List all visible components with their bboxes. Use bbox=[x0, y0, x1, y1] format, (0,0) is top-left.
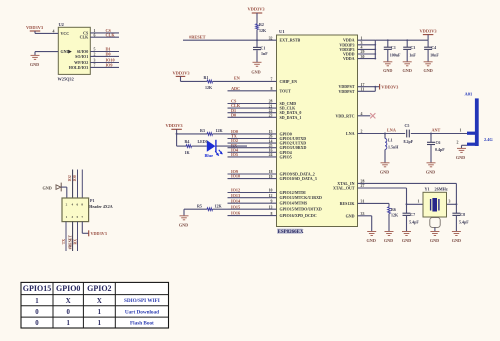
svg-text:12K: 12K bbox=[215, 203, 223, 208]
svg-text:GND: GND bbox=[380, 170, 389, 175]
svg-text:IO5: IO5 bbox=[231, 152, 238, 157]
svg-text:IO0: IO0 bbox=[73, 175, 77, 181]
svg-text:VDD3V3: VDD3V3 bbox=[91, 231, 107, 236]
svg-text:2.4G: 2.4G bbox=[484, 137, 493, 142]
svg-text:1: 1 bbox=[418, 200, 420, 204]
svg-text:X: X bbox=[66, 298, 71, 305]
svg-text:TOUT: TOUT bbox=[280, 88, 292, 93]
svg-text:GPIO13/MTCK/U1RXD: GPIO13/MTCK/U1RXD bbox=[280, 195, 323, 200]
svg-text:VDD3V3: VDD3V3 bbox=[173, 71, 191, 76]
svg-text:EN: EN bbox=[234, 76, 240, 81]
svg-text:TX: TX bbox=[62, 239, 66, 245]
svg-text:1.5nH: 1.5nH bbox=[388, 145, 399, 150]
svg-text:2: 2 bbox=[457, 141, 459, 145]
svg-text:C1: C1 bbox=[391, 45, 396, 50]
svg-text:U1: U1 bbox=[279, 29, 285, 34]
svg-text:IO2: IO2 bbox=[68, 175, 72, 181]
svg-text:GPIO5: GPIO5 bbox=[280, 154, 292, 159]
svg-text:R1: R1 bbox=[204, 75, 209, 80]
svg-text:RES12K: RES12K bbox=[340, 201, 356, 206]
svg-text:VDDPST: VDDPST bbox=[338, 89, 354, 94]
svg-text:R5: R5 bbox=[197, 203, 202, 208]
svg-text:1: 1 bbox=[98, 320, 102, 327]
svg-text:GND: GND bbox=[402, 238, 411, 243]
svg-text:GND: GND bbox=[346, 213, 355, 218]
svg-text:XTAL_OUT: XTAL_OUT bbox=[333, 186, 355, 191]
svg-text:#RESET: #RESET bbox=[68, 235, 72, 250]
svg-text:X: X bbox=[97, 298, 102, 305]
svg-text:12K: 12K bbox=[259, 28, 267, 33]
svg-text:GPIO16/XPD_DCDC: GPIO16/XPD_DCDC bbox=[280, 213, 317, 218]
svg-text:Y1: Y1 bbox=[425, 187, 430, 192]
svg-text:VDD3V3: VDD3V3 bbox=[26, 25, 44, 30]
svg-text:0.4pF: 0.4pF bbox=[435, 147, 445, 152]
svg-text:1K: 1K bbox=[185, 150, 191, 155]
svg-text:C8: C8 bbox=[460, 212, 465, 217]
svg-text:R2: R2 bbox=[259, 22, 264, 27]
svg-text:LNA: LNA bbox=[387, 128, 396, 133]
svg-text:GND: GND bbox=[452, 238, 461, 243]
svg-text:GPIO15/MTDO/U0TXD: GPIO15/MTDO/U0TXD bbox=[280, 207, 322, 212]
svg-text:7: 7 bbox=[94, 64, 96, 68]
svg-text:GND: GND bbox=[384, 238, 393, 243]
svg-text:0: 0 bbox=[35, 309, 39, 316]
svg-text:R6: R6 bbox=[391, 207, 396, 212]
svg-text:GND: GND bbox=[251, 70, 260, 75]
svg-text:0: 0 bbox=[66, 309, 70, 316]
svg-text:VDD_RTC: VDD_RTC bbox=[336, 113, 355, 118]
svg-text:CHIP_EN: CHIP_EN bbox=[280, 79, 298, 84]
svg-text:12K: 12K bbox=[205, 85, 213, 90]
svg-text:5.4pF: 5.4pF bbox=[409, 219, 419, 224]
svg-text:1: 1 bbox=[460, 129, 462, 133]
svg-text:SO/IO1: SO/IO1 bbox=[75, 54, 88, 59]
svg-text:P1: P1 bbox=[90, 198, 94, 203]
svg-text:CLK: CLK bbox=[80, 35, 90, 40]
svg-text:VCC: VCC bbox=[61, 31, 70, 36]
svg-text:GND: GND bbox=[179, 223, 188, 228]
svg-text:Blue: Blue bbox=[205, 153, 214, 158]
svg-text:GND: GND bbox=[61, 49, 70, 54]
svg-text:GND: GND bbox=[423, 68, 432, 73]
svg-text:R3: R3 bbox=[200, 128, 205, 133]
svg-text:IO15: IO15 bbox=[231, 204, 240, 209]
svg-text:12K: 12K bbox=[216, 128, 224, 133]
svg-text:GND: GND bbox=[426, 170, 435, 175]
svg-text:Flash Boot: Flash Boot bbox=[130, 321, 154, 327]
svg-text:VDD3V3: VDD3V3 bbox=[420, 28, 438, 33]
svg-text:C3: C3 bbox=[410, 45, 415, 50]
svg-text:L1: L1 bbox=[388, 138, 393, 143]
svg-text:D0: D0 bbox=[231, 112, 236, 117]
svg-text:GND: GND bbox=[30, 62, 39, 67]
svg-text:4: 4 bbox=[53, 29, 55, 33]
svg-text:R4: R4 bbox=[185, 139, 190, 144]
svg-text:ANT: ANT bbox=[432, 128, 441, 133]
svg-text:CLK: CLK bbox=[106, 32, 116, 37]
svg-text:GND: GND bbox=[367, 238, 376, 243]
svg-text:8.2pF: 8.2pF bbox=[404, 139, 414, 144]
svg-text:VDD3V3: VDD3V3 bbox=[248, 7, 266, 12]
svg-text:Uart Download: Uart Download bbox=[125, 310, 159, 316]
svg-text:2: 2 bbox=[94, 53, 96, 57]
svg-text:GPIO2: GPIO2 bbox=[87, 284, 111, 293]
svg-text:IO10: IO10 bbox=[231, 174, 240, 179]
svg-text:VDD3V3: VDD3V3 bbox=[381, 85, 399, 90]
svg-text:6: 6 bbox=[94, 33, 96, 37]
svg-text:C1: C1 bbox=[261, 46, 266, 51]
svg-text:GND: GND bbox=[456, 155, 465, 160]
svg-text:HOLD/IO3: HOLD/IO3 bbox=[69, 65, 89, 70]
svg-text:10nF: 10nF bbox=[430, 53, 439, 58]
svg-text:1: 1 bbox=[98, 309, 102, 316]
svg-text:C7: C7 bbox=[410, 212, 415, 217]
svg-text:D0: D0 bbox=[106, 52, 111, 57]
svg-text:VDDA: VDDA bbox=[343, 56, 355, 61]
svg-text:C5: C5 bbox=[405, 123, 410, 128]
svg-text:3: 3 bbox=[94, 59, 96, 63]
svg-text:RX: RX bbox=[73, 239, 77, 245]
svg-text:LNA: LNA bbox=[346, 131, 355, 136]
svg-text:0: 0 bbox=[35, 320, 39, 327]
svg-text:1nF: 1nF bbox=[409, 53, 416, 58]
svg-text:C6: C6 bbox=[436, 140, 441, 145]
svg-text:ADC: ADC bbox=[231, 86, 240, 91]
svg-text:SD_DATA_1: SD_DATA_1 bbox=[280, 115, 302, 120]
svg-text:3: 3 bbox=[449, 200, 451, 204]
svg-text:100nF: 100nF bbox=[390, 53, 401, 58]
svg-text:1: 1 bbox=[35, 298, 39, 305]
svg-text:IO13: IO13 bbox=[231, 193, 240, 198]
svg-text:W25Q32: W25Q32 bbox=[58, 77, 74, 82]
svg-text:GPIO14/MTMS: GPIO14/MTMS bbox=[280, 201, 309, 206]
svg-text:GPIO15: GPIO15 bbox=[23, 284, 51, 293]
svg-text:GND: GND bbox=[403, 68, 412, 73]
svg-text:1nF: 1nF bbox=[261, 51, 268, 56]
svg-text:IO16: IO16 bbox=[231, 211, 240, 216]
svg-text:GND: GND bbox=[383, 68, 392, 73]
svg-text:LED1: LED1 bbox=[198, 139, 208, 144]
svg-text:#RESET: #RESET bbox=[189, 34, 206, 39]
svg-text:EXT_RSTB: EXT_RSTB bbox=[280, 38, 301, 43]
svg-text:5.4pF: 5.4pF bbox=[459, 219, 469, 224]
svg-text:Header 4X2A: Header 4X2A bbox=[89, 204, 112, 209]
svg-text:IO9: IO9 bbox=[106, 63, 113, 68]
svg-text:GND: GND bbox=[430, 238, 439, 243]
svg-text:12K: 12K bbox=[391, 213, 399, 218]
svg-text:SDIO/SPI WIFI: SDIO/SPI WIFI bbox=[124, 298, 160, 304]
svg-text:C4: C4 bbox=[431, 45, 436, 50]
svg-text:VDD3V3: VDD3V3 bbox=[166, 123, 184, 128]
svg-text:26MHz: 26MHz bbox=[435, 187, 448, 192]
svg-text:GND: GND bbox=[43, 185, 52, 190]
svg-text:GPIO10/SD_DATA_3: GPIO10/SD_DATA_3 bbox=[280, 176, 317, 181]
svg-text:ESP8266EX: ESP8266EX bbox=[278, 230, 305, 235]
svg-text:IO14: IO14 bbox=[231, 198, 241, 203]
svg-text:A01: A01 bbox=[465, 92, 473, 97]
svg-text:U2: U2 bbox=[59, 22, 64, 27]
svg-text:GPIO0: GPIO0 bbox=[56, 284, 80, 293]
svg-text:5: 5 bbox=[94, 48, 96, 52]
svg-text:1: 1 bbox=[66, 320, 70, 327]
